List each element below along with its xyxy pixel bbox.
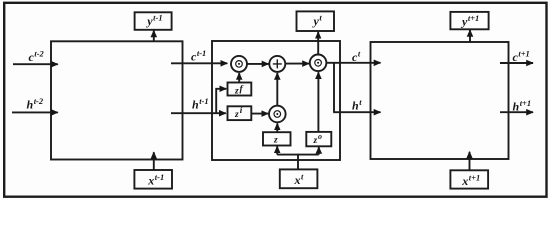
wire c t-2 input arrow [13, 63, 58, 65]
gate box z^f [228, 83, 252, 96]
wire x t-1 arrow [153, 152, 155, 170]
wire h t-2 input arrow [12, 111, 58, 113]
wire x feed connector [277, 154, 319, 156]
wire y t+1 arrow [469, 30, 471, 42]
outer border [4, 3, 546, 197]
cell box left (t-1) [51, 41, 183, 159]
wire output multiply to y t [317, 32, 319, 55]
wire h t output arrow [333, 111, 380, 113]
multiply node (forget) circle [231, 56, 247, 72]
gate box z^o [306, 132, 331, 146]
box y t [297, 11, 335, 31]
wire c t-1 arrow [171, 62, 227, 64]
wire x feed to z block [276, 146, 278, 154]
wire y t-1 arrow [153, 31, 155, 42]
multiply node (input) circle [269, 106, 286, 123]
box x t+1 [450, 170, 488, 188]
block input box z [263, 132, 291, 145]
box x t-1 [134, 170, 172, 189]
box x t [280, 169, 318, 188]
add node circle [269, 56, 285, 72]
cell box right (t+1) [371, 42, 509, 159]
wire x t stem [297, 154, 299, 170]
wire x t+1 arrow [469, 152, 471, 171]
wire z^f to forget multiply [238, 73, 240, 83]
box y t+1 [450, 12, 488, 29]
svg-text:z: z [273, 135, 278, 145]
wire h t-1 arrow into z^i [171, 112, 226, 114]
wire c t output arrow [326, 62, 380, 64]
wire x feed to z^o [318, 147, 320, 155]
wire forget multiply to add [247, 63, 269, 65]
wire z block to input multiply [276, 123, 278, 132]
wire h t+1 output arrow [500, 111, 533, 113]
wire c t+1 output arrow [500, 62, 533, 64]
multiply node (output) circle [310, 55, 327, 72]
wire h drop vertical [333, 63, 335, 112]
wire z^o to output multiply [317, 72, 319, 132]
wire z^i to input multiply [251, 113, 268, 115]
cell box middle (t) [212, 41, 340, 160]
gate box z^i [228, 106, 252, 120]
box y t-1 [135, 12, 172, 30]
wire h branch vertical [216, 89, 226, 113]
wire add to output multiply [285, 63, 309, 65]
wire input multiply to add [276, 73, 278, 106]
